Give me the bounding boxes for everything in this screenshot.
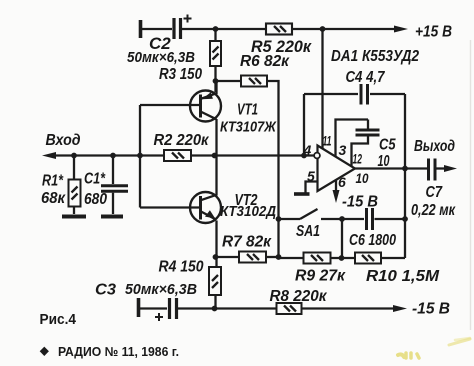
switch SA1 blade xyxy=(300,209,318,219)
wire pin 5 xyxy=(306,182,318,193)
capacitor C6 xyxy=(367,208,373,230)
C3 plus sign xyxy=(155,313,163,321)
ground bar pin5 xyxy=(294,192,310,196)
node output/C4 xyxy=(402,166,408,172)
footer diamond xyxy=(40,347,49,356)
svg-text:R4 150: R4 150 xyxy=(159,259,204,276)
wire R3 column xyxy=(214,29,216,41)
pin 6 arrow xyxy=(333,190,340,203)
wire SA1 row right xyxy=(321,218,364,220)
svg-text:КТ3102Д: КТ3102Д xyxy=(220,203,276,220)
resistor R10 xyxy=(355,253,381,264)
ground terminal at C2 left xyxy=(139,20,143,38)
svg-text:R6 82к: R6 82к xyxy=(240,53,290,70)
node input/base xyxy=(137,153,143,159)
wire R9-R10 xyxy=(331,257,356,259)
+15V arrow xyxy=(394,26,408,33)
svg-text:-15 В: -15 В xyxy=(342,194,378,211)
ground bar C1 xyxy=(101,215,123,219)
svg-text:R9 27к: R9 27к xyxy=(295,268,346,285)
resistor R1 xyxy=(69,156,81,215)
wire R3 to VT1 emitter xyxy=(214,66,216,92)
svg-text:R8 220к: R8 220к xyxy=(270,288,328,305)
pin4 inversion bubble xyxy=(314,153,320,159)
svg-text:680: 680 xyxy=(84,191,107,208)
svg-text:0,22 мк: 0,22 мк xyxy=(411,202,456,219)
svg-text:C1*: C1* xyxy=(84,171,106,188)
svg-text:10: 10 xyxy=(356,170,369,186)
wire R8 right xyxy=(302,307,395,309)
svg-text:11: 11 xyxy=(323,133,332,149)
node SA1/C6 xyxy=(339,216,345,222)
wire R7 left xyxy=(216,256,240,258)
svg-text:5: 5 xyxy=(307,168,315,184)
wire VT2 emitter down xyxy=(215,221,217,268)
svg-text:Выход: Выход xyxy=(414,138,455,155)
node C6/output column xyxy=(402,216,408,222)
wire pin 3 xyxy=(336,120,369,157)
capacitor C1 xyxy=(101,156,128,215)
wire VT2 base xyxy=(140,206,201,208)
wire output column xyxy=(404,94,406,258)
resistor R8 xyxy=(277,303,302,314)
resistor R9 xyxy=(304,253,331,264)
wire pin 11 xyxy=(321,29,323,149)
resistor R4 xyxy=(209,267,221,309)
wire C3 left xyxy=(140,307,167,309)
svg-text:C5: C5 xyxy=(379,137,396,154)
svg-text:VT1: VT1 xyxy=(237,102,258,119)
node input/R1 xyxy=(71,153,77,159)
node input/C1 xyxy=(110,153,116,159)
wire output row xyxy=(355,167,427,169)
wire VT2 collector up xyxy=(215,156,217,196)
svg-text:4: 4 xyxy=(303,142,312,158)
wire input row xyxy=(54,154,164,156)
capacitor C4 xyxy=(361,84,368,105)
svg-text:КТ3107Ж: КТ3107Ж xyxy=(220,119,277,136)
wire SA1 row left xyxy=(279,218,301,220)
wire VT1 base xyxy=(140,104,201,106)
wire R9 left xyxy=(279,257,304,259)
svg-text:12: 12 xyxy=(353,151,363,167)
ground bar R1 xyxy=(62,215,86,219)
faint yellow artifacts xyxy=(398,338,470,358)
wire pin4 column xyxy=(303,94,305,156)
wire C6 right xyxy=(375,218,406,220)
wire pin 6 xyxy=(335,180,337,192)
capacitor C7 xyxy=(429,159,436,181)
output arrow xyxy=(444,165,457,172)
svg-text:С6 1800: С6 1800 xyxy=(349,232,396,249)
wire C4 feedback row xyxy=(304,93,358,95)
svg-text:R2 220к: R2 220к xyxy=(154,132,210,149)
wire C7 right xyxy=(435,167,446,169)
C2 plus sign xyxy=(184,15,192,23)
svg-text:C7: C7 xyxy=(426,184,443,201)
node R7/R9 column xyxy=(276,254,282,260)
faint scan edge line xyxy=(470,40,472,330)
capacitor C2 xyxy=(174,18,181,39)
svg-text:R10 1,5М: R10 1,5М xyxy=(366,268,440,285)
-15V bottom arrow xyxy=(393,305,407,312)
wire R6 to column xyxy=(267,81,279,257)
svg-text:SA1: SA1 xyxy=(296,223,320,240)
node R3/R6/VT1 xyxy=(213,78,219,84)
wire R10 right to output column xyxy=(381,257,405,259)
wire bottom rail xyxy=(178,307,276,309)
svg-text:R1*: R1* xyxy=(42,173,64,190)
ground terminal at C3 left xyxy=(137,298,141,317)
op-amp DA1 triangle xyxy=(318,146,356,192)
node R9/R10 xyxy=(339,255,345,261)
resistor R7 xyxy=(239,252,266,263)
transistor VT2 xyxy=(190,192,221,223)
node pin4/C4 xyxy=(301,153,307,159)
svg-text:68к: 68к xyxy=(41,190,66,207)
resistor R6 xyxy=(241,76,267,87)
wire VT1 collector down to input row xyxy=(215,119,217,156)
svg-text:6: 6 xyxy=(338,174,346,190)
svg-text:DA1 К553УД2: DA1 К553УД2 xyxy=(331,48,419,65)
input arrow xyxy=(42,152,56,159)
svg-text:R7 82к: R7 82к xyxy=(222,234,272,251)
svg-text:50мк×6,3В: 50мк×6,3В xyxy=(125,282,197,298)
node pin11 rail junction xyxy=(320,26,326,32)
resistor R5 xyxy=(266,24,292,35)
svg-text:3: 3 xyxy=(339,142,347,158)
wire R6 link xyxy=(216,80,242,82)
capacitor C5 xyxy=(352,120,380,167)
transistor VT1 xyxy=(190,91,221,122)
svg-text:РАДИО № 11, 1986 г.: РАДИО № 11, 1986 г. xyxy=(58,344,179,359)
svg-text:Вход: Вход xyxy=(46,132,81,149)
wire base column xyxy=(139,105,141,208)
node R4/bottom rail xyxy=(212,306,218,312)
wire +15V top rail xyxy=(142,28,172,30)
svg-text:R3 150: R3 150 xyxy=(159,66,202,83)
resistor R2 xyxy=(164,150,191,161)
svg-text:C4 4,7: C4 4,7 xyxy=(346,69,386,86)
wire VT1 emitter up xyxy=(215,81,217,94)
capacitor C3 xyxy=(170,298,177,319)
node VT2e/R7/R4 xyxy=(213,254,219,260)
resistor R3 xyxy=(210,41,221,66)
node C2/R3 junction xyxy=(213,26,219,32)
svg-text:Рис.4: Рис.4 xyxy=(40,311,77,328)
svg-text:50мк×6,3В: 50мк×6,3В xyxy=(127,50,195,66)
wire R7 right xyxy=(266,256,279,258)
node SA1 column xyxy=(276,216,282,222)
node collector/R2 xyxy=(212,153,218,159)
svg-text:C3: C3 xyxy=(95,282,116,299)
wire SA1-C6 node to R9-R10 node xyxy=(341,219,343,258)
svg-text:-15 В: -15 В xyxy=(412,301,450,318)
svg-text:+15 В: +15 В xyxy=(415,24,452,41)
